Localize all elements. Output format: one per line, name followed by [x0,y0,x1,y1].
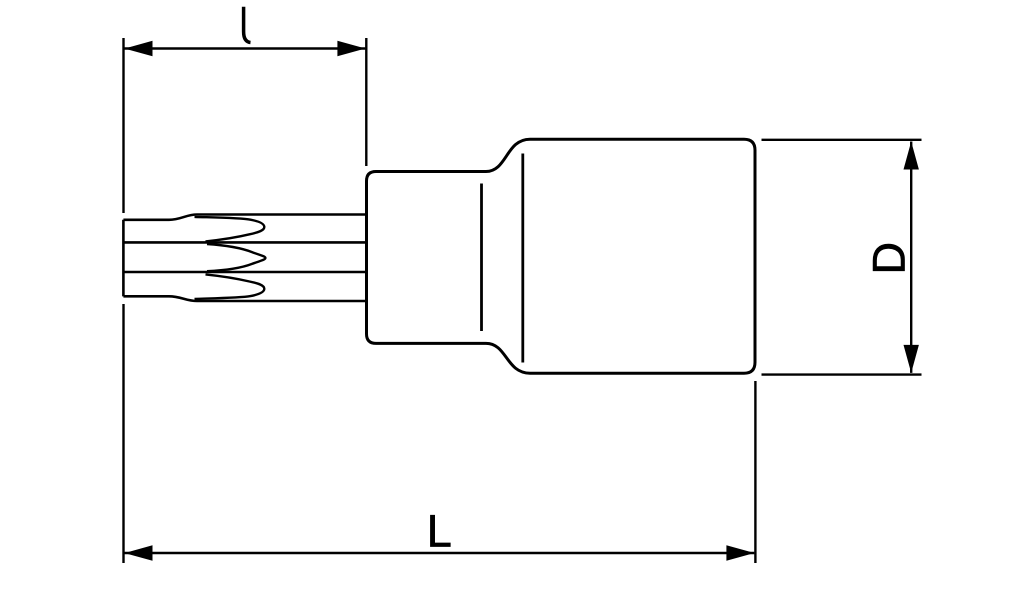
arrowhead l right [337,41,365,56]
collar chamfer line V1 [480,184,483,332]
shaft flute line 3 [123,271,366,274]
bit tip end face [122,220,125,297]
arrowhead L left [125,545,153,560]
extension line right of dim l (collar left face) [365,38,367,166]
arrowhead D top [904,142,919,170]
dimension line L [125,552,755,554]
svg-text:L: L [427,505,452,556]
svg-text:D: D [863,242,914,275]
arrowhead L right [726,545,754,560]
torx lobe 3 rounded end [195,274,265,299]
dimension line l [125,47,366,49]
label l [244,7,251,43]
bit top edge with ramp to shaft top line [123,215,366,220]
extension line bottom of dim D [762,373,922,375]
bit bottom edge with ramp to shaft bottom line [123,296,366,301]
extension line left (shared by dims l and L, at bit tip) [122,38,124,563]
extension line right of dim L (socket right face) [754,381,756,563]
dimension line D [910,142,912,373]
arrowhead D bottom [904,345,919,373]
shaft flute line 2 [123,241,366,244]
torx lobe 2 rounded end [207,244,265,271]
socket left face line V2 [521,154,524,363]
collar and socket body outline [367,139,756,373]
extension line top of dim D [762,139,922,141]
arrowhead l left [125,41,153,56]
torx lobe 1 rounded end [195,217,265,242]
